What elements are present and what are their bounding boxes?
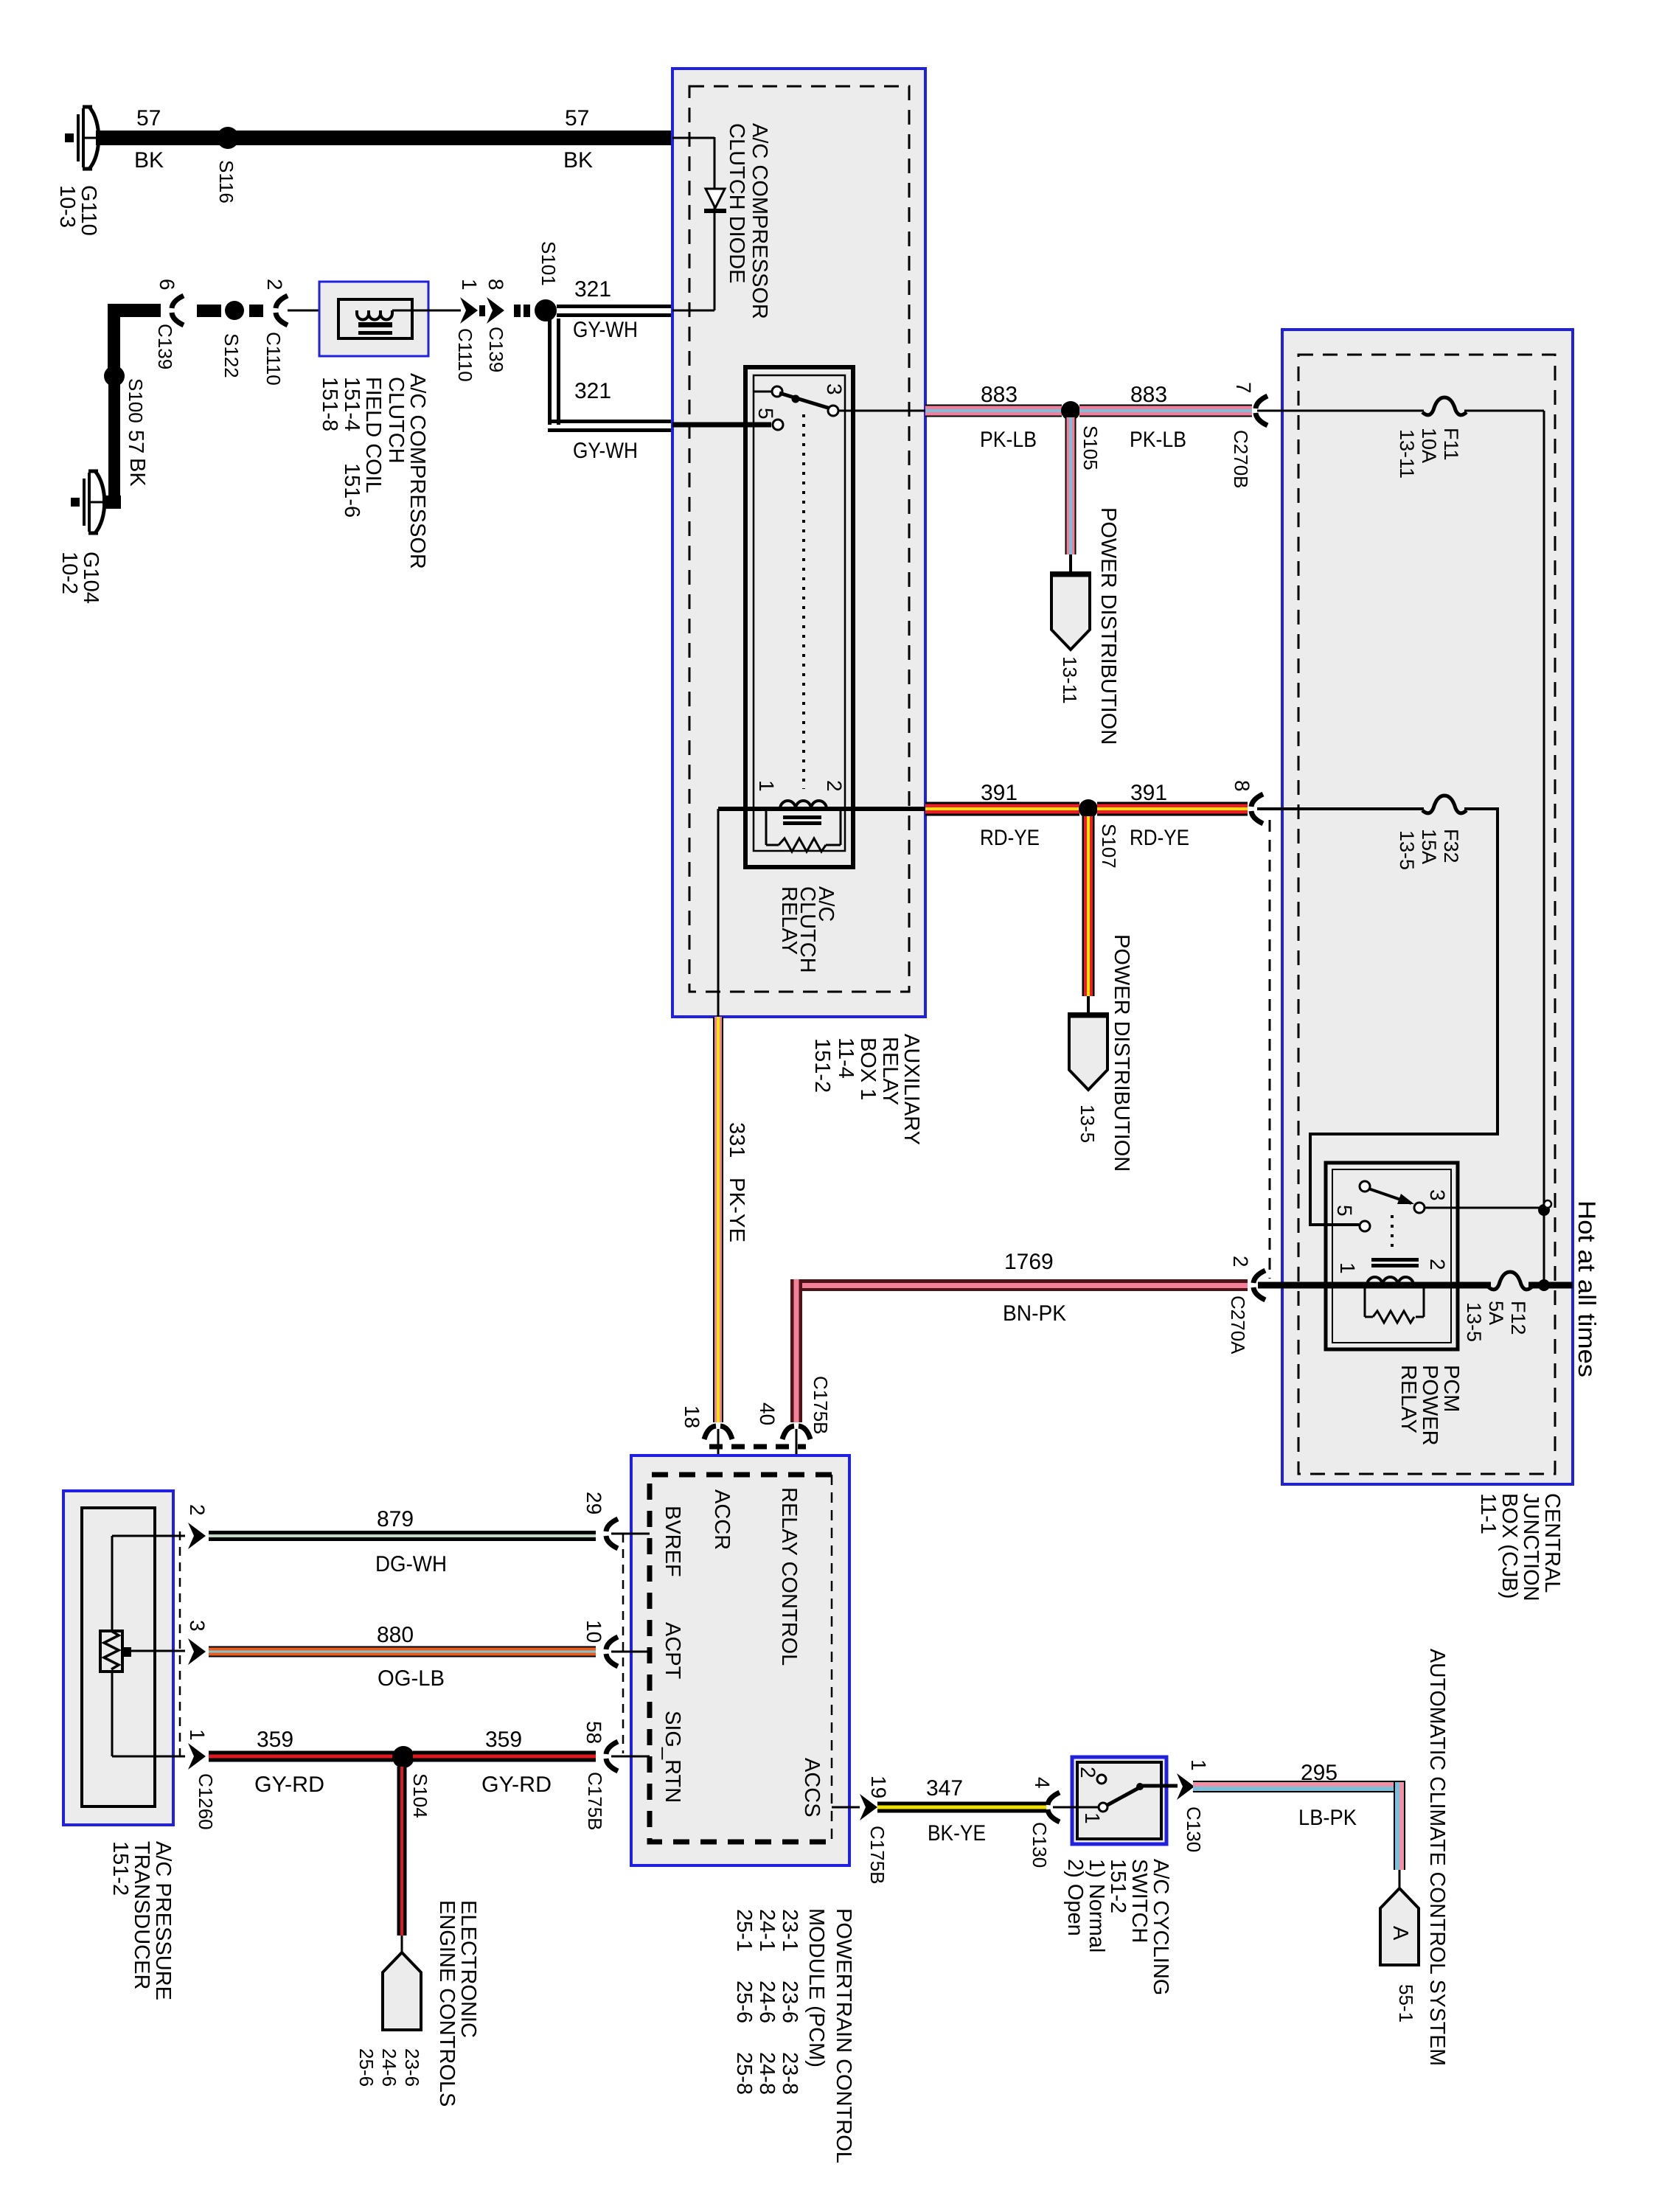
label pin 18: [681, 1405, 703, 1428]
svg-text:4: 4: [1031, 1777, 1054, 1789]
wire ACCS stub: [832, 1806, 860, 1809]
relay pin5 contact circle: [773, 420, 783, 430]
label pin 8: [484, 279, 507, 291]
svg-text:2: 2: [1229, 1256, 1252, 1267]
svg-text:ACCS: ACCS: [800, 1758, 824, 1818]
svg-text:GY-RD: GY-RD: [254, 1773, 324, 1797]
connector arrow pin 29: [606, 1519, 618, 1548]
label C1110 left: [262, 332, 285, 386]
svg-text:151-2: 151-2: [810, 1038, 834, 1093]
label GY-RD right: [481, 1773, 552, 1797]
svg-text:25-6: 25-6: [732, 1980, 756, 2023]
svg-text:CLUTCH DIODE: CLUTCH DIODE: [725, 123, 748, 284]
label RELAY CONTROL: [777, 1487, 801, 1666]
svg-text:ENGINE CONTROLS: ENGINE CONTROLS: [435, 1900, 459, 2107]
svg-text:10-2: 10-2: [58, 552, 81, 594]
svg-text:POWER DISTRIBUTION: POWER DISTRIBUTION: [1096, 507, 1120, 745]
label 359 left: [257, 1728, 293, 1752]
PCM relay coil resistor: [1365, 1288, 1424, 1323]
label F12 5A 13-5: [1463, 1301, 1529, 1342]
svg-text:13-5: 13-5: [1463, 1302, 1485, 1342]
splice S116: [217, 127, 239, 149]
svg-text:1: 1: [1187, 1759, 1210, 1771]
svg-text:347: 347: [926, 1776, 963, 1801]
svg-text:8: 8: [1231, 780, 1253, 792]
svg-text:23-8: 23-8: [778, 2052, 801, 2095]
svg-text:2: 2: [823, 780, 846, 792]
label pin 40: [756, 1402, 779, 1425]
fuse F32: [1422, 796, 1467, 813]
label powertrain control module: [732, 1908, 855, 2163]
svg-text:13-5: 13-5: [1077, 1105, 1099, 1143]
wire PCM relay pin3 to junction: [1425, 1207, 1544, 1209]
splice S101: [535, 299, 557, 321]
svg-text:2: 2: [186, 1504, 209, 1516]
label G110 10-3: [55, 185, 100, 236]
svg-text:S107: S107: [1098, 824, 1120, 869]
label SIG_RTN: [661, 1711, 684, 1803]
svg-text:A/C CYCLING: A/C CYCLING: [1149, 1859, 1172, 1995]
svg-text:ACCR: ACCR: [710, 1489, 734, 1550]
label BN-PK: [1003, 1301, 1066, 1326]
label C130 left: [1029, 1822, 1051, 1868]
wire 359 GY-RD right: [413, 1751, 596, 1762]
PCM relay pin 3 terminal: [1360, 1181, 1370, 1192]
label C175B bottom: [584, 1772, 606, 1831]
svg-text:2: 2: [1426, 1259, 1449, 1270]
wire 347 BK-YE: [877, 1802, 1046, 1813]
label DG-WH: [375, 1552, 447, 1576]
svg-text:C1110: C1110: [262, 332, 285, 386]
label 13-5: [1077, 1105, 1099, 1143]
label GY-WH upper: [573, 318, 638, 342]
svg-text:1769: 1769: [1004, 1250, 1054, 1274]
label A/C clutch relay: [777, 886, 838, 973]
label 880: [377, 1623, 414, 1647]
connector arrow pin 6: [172, 296, 184, 325]
label RD-YE right: [1130, 826, 1189, 850]
svg-text:PK-LB: PK-LB: [1130, 428, 1186, 452]
connector dashed line C1260: [179, 1531, 181, 1756]
label pin 3 transducer: [186, 1620, 209, 1632]
svg-text:24-8: 24-8: [755, 2052, 779, 2095]
svg-text:23-6: 23-6: [401, 2048, 423, 2087]
label C139 left: [154, 324, 176, 369]
svg-text:3: 3: [823, 383, 846, 395]
label 321 lower: [574, 379, 611, 403]
svg-text:23-1: 23-1: [778, 1909, 801, 1952]
wire hot at all times: [1258, 1282, 1491, 1289]
A/C cycling switch box: [1072, 1757, 1166, 1844]
wire 331 PK-YE: [713, 1017, 723, 1422]
label 57 BK vertical: [124, 430, 149, 487]
connector dashed line C270: [1269, 820, 1271, 1279]
label GY-RD left: [254, 1773, 324, 1797]
svg-text:C175B: C175B: [810, 1376, 832, 1435]
svg-text:F32: F32: [1440, 829, 1462, 863]
label S100: [125, 378, 147, 423]
connector arrow pin 1 (male): [460, 297, 478, 324]
label ACCR: [710, 1489, 734, 1550]
svg-text:BOX 1: BOX 1: [856, 1037, 880, 1100]
connector arrow pin 4 C130: [1048, 1792, 1060, 1822]
label A/C cycling switch: [1063, 1859, 1172, 1995]
connector arrow C270A pin 2: [1253, 1270, 1265, 1300]
svg-text:GY-WH: GY-WH: [573, 439, 638, 463]
wire ACPT stub: [611, 1651, 650, 1653]
svg-text:RD-YE: RD-YE: [980, 826, 1040, 850]
svg-text:PCM: PCM: [1439, 1365, 1463, 1412]
wire dash tick: [479, 305, 485, 316]
PCM relay pin 5 terminal: [1360, 1221, 1370, 1231]
svg-text:POWER: POWER: [1418, 1365, 1441, 1446]
svg-text:3: 3: [1426, 1189, 1449, 1201]
svg-text:13-11: 13-11: [1396, 429, 1418, 479]
wire into switch contact 1: [1053, 1806, 1098, 1809]
label pin 1: [458, 279, 481, 291]
label BK right: [563, 148, 593, 173]
svg-text:24-6: 24-6: [378, 2048, 400, 2087]
wire dash segment b: [249, 305, 263, 317]
svg-text:10A: 10A: [1418, 428, 1440, 463]
wire F11 to hot bus: [1464, 411, 1544, 1208]
label pin 58: [582, 1721, 605, 1744]
svg-text:BK: BK: [125, 458, 149, 487]
relay coil inductor: [780, 801, 827, 825]
splice S122: [225, 301, 244, 320]
svg-text:151-6: 151-6: [340, 463, 364, 518]
label F32 15A 13-5: [1396, 829, 1462, 870]
connector arrow C175B pin 18: [704, 1426, 732, 1475]
svg-text:BN-PK: BN-PK: [1003, 1301, 1066, 1326]
svg-text:POWERTRAIN CONTROL: POWERTRAIN CONTROL: [832, 1908, 855, 2163]
svg-text:24-6: 24-6: [755, 1980, 779, 2023]
fuse F11: [1422, 397, 1467, 415]
label pin 7: [1232, 382, 1255, 394]
wire 391 RD-YE right: [1097, 802, 1248, 816]
svg-text:RELAY: RELAY: [878, 1037, 902, 1105]
svg-text:2: 2: [1077, 1767, 1099, 1778]
svg-text:RD-YE: RD-YE: [1130, 826, 1189, 850]
wire 57 BK S100 to G104: [102, 376, 121, 509]
svg-text:A/C PRESSURE: A/C PRESSURE: [151, 1841, 175, 2000]
svg-text:10-3: 10-3: [55, 185, 79, 228]
label pin 19: [867, 1775, 890, 1798]
connector arrow pin 1 transducer (male): [188, 1743, 206, 1770]
connector arrow pin 58: [606, 1742, 618, 1771]
svg-text:S116: S116: [215, 160, 237, 204]
svg-text:C270B: C270B: [1230, 430, 1252, 489]
svg-text:391: 391: [981, 781, 1018, 805]
label LB-PK: [1298, 1806, 1357, 1830]
svg-text:1: 1: [1336, 1262, 1359, 1274]
svg-text:ACPT: ACPT: [661, 1622, 684, 1680]
connector arrow pin 8 (male): [487, 297, 504, 324]
svg-text:1) Normal: 1) Normal: [1085, 1859, 1108, 1952]
svg-text:C139: C139: [485, 327, 507, 372]
label 1769: [1004, 1250, 1054, 1274]
svg-text:POWER DISTRIBUTION: POWER DISTRIBUTION: [1110, 934, 1133, 1172]
svg-text:57: 57: [565, 106, 589, 131]
powertrain control module box (blue box): [631, 1455, 849, 1865]
wire 57 BK (G110 to auxiliary relay box): [96, 131, 672, 145]
svg-text:RELAY CONTROL: RELAY CONTROL: [777, 1487, 801, 1666]
electronic engine controls banner: [383, 1952, 421, 2030]
transducer sensor symbol: [100, 1631, 131, 1672]
label 879: [377, 1507, 414, 1531]
label 321 upper: [574, 277, 611, 302]
svg-text:11-4: 11-4: [834, 1037, 858, 1079]
label 347: [926, 1776, 963, 1801]
svg-text:151-2: 151-2: [108, 1841, 132, 1896]
label pin 1 transducer: [186, 1729, 209, 1741]
auxiliary relay box 1 (blue box): [672, 69, 925, 1017]
label F11 10A 13-11: [1396, 428, 1462, 479]
svg-text:359: 359: [485, 1728, 522, 1752]
label ELECTRONIC ENGINE CONTROLS: [435, 1900, 480, 2107]
svg-text:5: 5: [1333, 1205, 1356, 1217]
svg-text:BK-YE: BK-YE: [928, 1821, 986, 1846]
svg-text:SIG_RTN: SIG_RTN: [661, 1711, 684, 1803]
label automatic climate control system: [1425, 1649, 1449, 2066]
svg-text:S122: S122: [220, 333, 243, 378]
label A/C compressor clutch field coil: [318, 373, 429, 569]
label POWER DISTRIBUTION upper: [1096, 507, 1120, 745]
ground G104: [71, 471, 105, 533]
svg-text:331: 331: [725, 1122, 748, 1158]
svg-text:1: 1: [186, 1729, 209, 1741]
svg-text:11-1: 11-1: [1476, 1493, 1500, 1534]
label C1260: [195, 1773, 217, 1830]
label C1110 right: [454, 328, 476, 382]
cycling switch arm: [1107, 1783, 1144, 1805]
label 57 left: [136, 106, 161, 131]
svg-text:7: 7: [1232, 382, 1255, 394]
svg-text:Hot at all times: Hot at all times: [1573, 1200, 1601, 1377]
svg-text:C130: C130: [1183, 1806, 1205, 1852]
svg-text:18: 18: [681, 1405, 703, 1428]
svg-text:151-2: 151-2: [1106, 1859, 1130, 1913]
label S104: [409, 1773, 431, 1818]
label 55-1: [1395, 1984, 1417, 2023]
wire switch to pin 1: [1140, 1784, 1178, 1788]
svg-text:MODULE (PCM): MODULE (PCM): [804, 1908, 828, 2067]
svg-text:8: 8: [484, 279, 507, 291]
central junction box (blue box): [1282, 330, 1573, 1484]
wire BVREF stub: [611, 1533, 650, 1535]
svg-text:5: 5: [754, 408, 777, 420]
svg-text:A/C COMPRESSOR: A/C COMPRESSOR: [406, 373, 429, 569]
cycling switch contact 1: [1099, 1803, 1107, 1812]
svg-text:S105: S105: [1079, 425, 1102, 470]
svg-text:391: 391: [1130, 781, 1167, 805]
svg-text:880: 880: [377, 1623, 414, 1647]
svg-text:TRANSDUCER: TRANSDUCER: [130, 1841, 153, 1989]
splice S104: [392, 1746, 414, 1768]
svg-text:883: 883: [1130, 383, 1167, 407]
A/C clutch relay box: [745, 367, 853, 867]
svg-text:25-8: 25-8: [732, 2052, 756, 2095]
connector arrow pin 10: [606, 1637, 618, 1666]
label pin 29: [582, 1492, 605, 1514]
label Hot at all times: [1573, 1200, 1601, 1377]
wire 391 RD-YE left: [925, 802, 1079, 816]
svg-text:10: 10: [582, 1620, 605, 1643]
svg-text:19: 19: [867, 1775, 890, 1798]
label BVREF: [661, 1506, 684, 1577]
wire 359 S104 drop: [397, 1767, 407, 1954]
svg-text:359: 359: [257, 1728, 293, 1752]
svg-text:S100: S100: [125, 378, 147, 423]
svg-text:DG-WH: DG-WH: [375, 1552, 447, 1576]
wire into field coil: [288, 310, 357, 312]
power distribution banner 13-11: [1050, 573, 1091, 650]
wire F12 to hot junction: [1528, 1282, 1573, 1289]
wire 879 DG-WH: [209, 1531, 596, 1541]
wire 883 PK-LB right: [1079, 405, 1252, 417]
wire 880 OG-LB: [209, 1646, 596, 1658]
svg-text:1: 1: [755, 780, 778, 792]
connector arrow pin 19 (male): [860, 1794, 877, 1820]
cycling switch contact 2: [1097, 1775, 1106, 1784]
diode CR (clutch diode): [704, 189, 726, 213]
label 13-11: [1059, 656, 1081, 704]
label 57 right: [565, 106, 589, 131]
svg-text:LB-PK: LB-PK: [1298, 1806, 1357, 1830]
svg-text:F12: F12: [1507, 1301, 1529, 1335]
label pin 2 C270A: [1229, 1256, 1252, 1267]
relay switch arm: [779, 393, 830, 408]
svg-text:S101: S101: [538, 241, 560, 286]
connector arrow pin 3 transducer (male): [188, 1638, 206, 1665]
label C130 right: [1183, 1806, 1205, 1852]
aux box inner dashed border: [689, 86, 909, 992]
ground G110: [65, 107, 99, 169]
label C270A: [1227, 1295, 1249, 1354]
wire C270B to fuse F11: [1257, 410, 1424, 412]
wire 321 GY-WH lower (to relay pin 5): [548, 420, 672, 432]
svg-text:C270A: C270A: [1227, 1295, 1249, 1354]
label PCM power relay: [1397, 1365, 1463, 1446]
transducer inner box: [82, 1508, 155, 1806]
PCM relay coil: [1367, 1258, 1419, 1285]
A/C pressure transducer box (blue box): [63, 1491, 173, 1825]
svg-text:C175B: C175B: [866, 1826, 888, 1885]
wire relay pin1 drop (inside box): [717, 809, 720, 1017]
label BK-YE: [928, 1821, 986, 1846]
svg-text:RELAY: RELAY: [1397, 1365, 1420, 1433]
PCM relay dotted link: [1391, 1215, 1394, 1249]
svg-text:1: 1: [1081, 1812, 1104, 1824]
relay contact pin 3 terminal: [828, 406, 838, 416]
automatic climate control banner A: [1380, 1888, 1419, 1965]
label S101: [538, 241, 560, 286]
svg-text:883: 883: [981, 383, 1018, 407]
field coil inductor: [357, 310, 392, 335]
splice S100: [104, 366, 125, 386]
wire hot junction drop: [1543, 1208, 1545, 1285]
label PK-YE: [725, 1178, 748, 1242]
label relay pin 2: [823, 780, 846, 792]
svg-text:25-1: 25-1: [732, 1909, 756, 1952]
svg-text:PK-LB: PK-LB: [980, 428, 1037, 452]
label pin 4: [1031, 1777, 1054, 1789]
wire 57 BK corner to S100: [108, 304, 161, 376]
wire field coil to connectors: [392, 310, 461, 312]
wire F32 to PCM relay pin 5: [1310, 809, 1498, 1225]
PCM inner dashed border (bold): [650, 1475, 832, 1842]
svg-text:C175B: C175B: [584, 1772, 606, 1831]
svg-text:A: A: [1388, 1926, 1412, 1941]
wire 321 single to pin 5: [672, 422, 771, 428]
CJB inner dashed border: [1298, 355, 1555, 1474]
label pin 2 transducer: [186, 1504, 209, 1516]
label PCM relay pin 3: [1426, 1189, 1449, 1201]
connector arrow pin 8 CJB: [1251, 794, 1263, 824]
label A/C pressure transducer: [108, 1841, 175, 2000]
label A/C compressor clutch diode: [725, 123, 771, 319]
svg-text:PK-YE: PK-YE: [725, 1178, 748, 1242]
wire S105 to power distribution: [1065, 417, 1077, 573]
svg-text:58: 58: [582, 1721, 605, 1744]
label C175B right: [866, 1826, 888, 1885]
svg-text:151-8: 151-8: [318, 377, 341, 431]
svg-text:C1260: C1260: [195, 1773, 217, 1830]
wire 295 LB-PK: [1193, 1781, 1405, 1870]
label C139 right: [485, 327, 507, 372]
svg-text:13-5: 13-5: [1396, 830, 1418, 870]
svg-text:BK: BK: [134, 148, 164, 173]
connector dashed line C175B left: [622, 1534, 625, 1753]
connector arrow C270B pin 7: [1256, 396, 1267, 425]
label PCM relay pin 1: [1336, 1262, 1359, 1274]
power distribution banner 13-5: [1068, 1014, 1109, 1090]
svg-text:15A: 15A: [1418, 829, 1440, 864]
svg-text:25-6: 25-6: [355, 2048, 378, 2087]
svg-text:2: 2: [263, 279, 286, 291]
label pin 10: [582, 1620, 605, 1643]
svg-text:JUNCTION: JUNCTION: [1519, 1493, 1543, 1601]
label BK left: [134, 148, 164, 173]
label switch pos 1: [1081, 1812, 1104, 1824]
relay dotted link: [802, 414, 805, 789]
wire 295 to banner: [1399, 1870, 1401, 1890]
svg-text:FIELD COIL: FIELD COIL: [361, 377, 385, 493]
relay contact pin 5 terminal: [772, 386, 782, 397]
label PK-LB left: [980, 428, 1037, 452]
svg-text:F11: F11: [1440, 428, 1462, 461]
transducer internal bus: [112, 1536, 185, 1756]
label GY-WH lower: [573, 439, 638, 463]
wire dash segment a: [197, 305, 221, 317]
svg-text:S104: S104: [409, 1773, 431, 1818]
svg-text:2) Open: 2) Open: [1063, 1859, 1087, 1936]
label S107: [1098, 824, 1120, 869]
A/C compressor clutch field coil box: [319, 282, 428, 356]
label ACCS: [800, 1758, 824, 1818]
label S116: [215, 160, 237, 204]
svg-text:3: 3: [186, 1620, 209, 1632]
C175B connector dashed bar: [709, 1444, 806, 1450]
svg-text:AUXILIARY: AUXILIARY: [900, 1034, 923, 1145]
svg-text:57: 57: [124, 430, 147, 453]
svg-text:BVREF: BVREF: [661, 1506, 684, 1577]
wire 359 GY-RD left: [209, 1751, 394, 1762]
label S105: [1079, 425, 1102, 470]
label ACPT: [661, 1622, 684, 1680]
svg-text:BOX (CJB): BOX (CJB): [1498, 1493, 1521, 1599]
connector arrow pin 2 transducer (male): [188, 1523, 206, 1549]
